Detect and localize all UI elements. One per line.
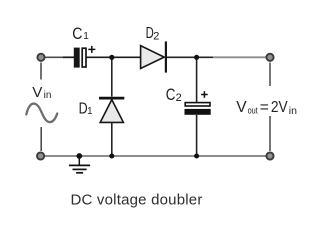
svg-text:V: V [236, 99, 247, 116]
svg-text:2: 2 [176, 92, 182, 104]
svg-text:1: 1 [87, 106, 92, 117]
svg-text:C: C [72, 25, 82, 43]
svg-text:C: C [166, 86, 176, 104]
svg-text:=: = [260, 99, 269, 116]
svg-text:V: V [32, 84, 43, 101]
svg-text:2: 2 [153, 31, 159, 43]
svg-text:in: in [289, 106, 297, 117]
svg-text:1: 1 [83, 31, 89, 42]
svg-text:in: in [44, 90, 52, 101]
svg-text:2V: 2V [271, 99, 288, 116]
svg-text:DC voltage doubler: DC voltage doubler [71, 191, 203, 208]
svg-text:out: out [248, 106, 259, 116]
